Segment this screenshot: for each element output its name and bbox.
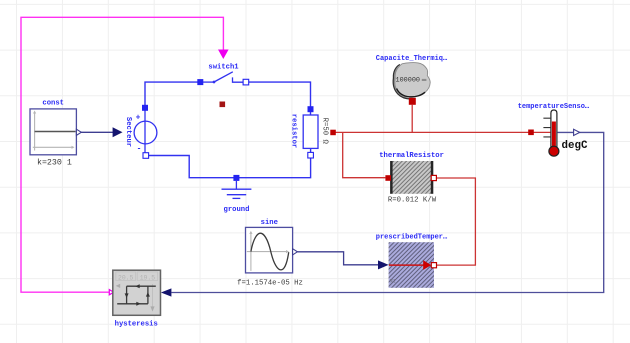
param boxes 20.5 / 19.5 xyxy=(116,272,136,281)
pin: resistor heatPort (filled red square) xyxy=(330,130,336,136)
component: Capacite_Thermiq heat capacitor xyxy=(376,55,448,105)
pin: switch1.p (filled blue square) xyxy=(197,79,203,85)
red arrow inside xyxy=(389,264,424,266)
switch lead and arm xyxy=(203,81,214,83)
svg-text:100000: 100000 xyxy=(396,76,420,84)
svg-text:-: - xyxy=(137,145,142,154)
component: hysteresis block xyxy=(113,270,161,328)
pin: Secteur.n (open square) xyxy=(143,153,149,159)
pin: resistor.n (open square) xyxy=(308,152,314,158)
arrowhead: into hysteresis (filled navy) xyxy=(161,288,172,296)
blob dark shade (left/bottom crescent) xyxy=(393,65,412,100)
blob bottom outline xyxy=(397,89,425,97)
component: prescribedTemper prescribed temperature xyxy=(376,234,448,288)
svg-text:19.5: 19.5 xyxy=(140,274,156,281)
svg-text:20.5: 20.5 xyxy=(118,274,134,281)
component: temperatureSensor thermometer xyxy=(518,103,590,156)
wire: boolean signal hysteresis.y -> switch1.control (magenta) xyxy=(21,17,223,292)
tube xyxy=(551,110,557,147)
const axes xyxy=(33,113,73,151)
right bar xyxy=(431,161,434,194)
pin: Secteur.p (filled blue square) xyxy=(142,105,148,111)
pin: port_a (filled red square) xyxy=(385,175,391,181)
pin: port_b (open red square) xyxy=(431,175,436,180)
const value line xyxy=(35,131,76,133)
arrowhead: boolean into switch1 (filled, down) xyxy=(218,50,229,60)
component: const block U-const xyxy=(30,99,81,167)
ticks xyxy=(543,118,550,137)
svg-text:%t: %t xyxy=(390,279,396,285)
wire: const.y -> Secteur.v (navy) xyxy=(81,131,114,133)
sine axes xyxy=(247,233,287,271)
pin: resistor.p (filled blue square) xyxy=(308,106,314,112)
component: resistor R=50 xyxy=(290,106,329,158)
svg-text:R=0.012 K/W: R=0.012 K/W xyxy=(388,197,437,205)
sine curve xyxy=(251,233,289,270)
node: ground junction (filled blue square) xyxy=(233,175,239,181)
svg-text:f=1.1574e-05 Hz: f=1.1574e-05 Hz xyxy=(237,280,303,288)
wire: sine.y -> prescribedTemperature.T (navy) xyxy=(297,252,379,265)
svg-text:Capacite_Thermiq…: Capacite_Thermiq… xyxy=(376,55,448,63)
svg-text:+: + xyxy=(136,114,141,123)
svg-text:const: const xyxy=(42,99,64,107)
component: thermalResistor xyxy=(379,152,444,205)
component: sine block xyxy=(237,219,303,287)
svg-text:resistor: resistor xyxy=(290,114,298,149)
light gray axis arrows xyxy=(116,284,121,288)
svg-text:ground: ground xyxy=(224,206,250,214)
component: ground xyxy=(222,181,252,199)
blob body xyxy=(395,63,430,97)
hysteresis loop xyxy=(117,286,156,304)
svg-text:prescribedTemper…: prescribedTemper… xyxy=(376,234,448,242)
svg-text:k=230 1: k=230 1 xyxy=(37,158,72,168)
connector: sensor output (open navy triangle) xyxy=(574,129,580,135)
component: Secteur signal voltage source xyxy=(124,105,157,159)
wire: thermalResistor.port_b -> prescribedTemperature.port xyxy=(436,178,475,265)
wire: capacitor drop xyxy=(411,105,413,133)
svg-text:Secteur: Secteur xyxy=(124,117,132,147)
wire: switch1.n -> resistor.p xyxy=(246,82,311,115)
svg-text:hysteresis: hysteresis xyxy=(115,320,158,328)
wire: resistor.n -> ground -> Secteur.n xyxy=(146,148,311,177)
svg-text:R=50 Ω: R=50 Ω xyxy=(321,118,329,145)
bulb xyxy=(549,146,559,156)
wire: bus -> thermalResistor.port_a xyxy=(343,132,386,177)
left bar xyxy=(390,161,393,194)
component: switch1 ideal switch xyxy=(197,64,248,108)
wire: Secteur.p -> switch1.p (blue electrical) xyxy=(145,82,200,108)
connector: sine output (open navy triangle) xyxy=(293,249,298,255)
svg-text:switch1: switch1 xyxy=(208,64,239,72)
wire: temperatureSensor.T -> hysteresis.u (navy long loop) xyxy=(171,132,603,292)
loop arrows xyxy=(135,284,140,288)
pin: prescribed port (open red square) xyxy=(431,263,436,268)
svg-text:sine: sine xyxy=(261,219,278,227)
red column xyxy=(552,122,556,149)
pin: switch1.n (open square) xyxy=(243,79,249,85)
svg-text:degC: degC xyxy=(562,140,588,152)
blob shade outline xyxy=(393,65,412,100)
connector: const output (open navy triangle) xyxy=(76,129,81,135)
svg-text:thermalResistor: thermalResistor xyxy=(379,152,444,160)
svg-text:temperatureSenso…: temperatureSenso… xyxy=(518,103,590,111)
node: sensor junction (filled red square) xyxy=(528,130,534,136)
connector: hysteresis output (open magenta triangle) xyxy=(109,290,113,295)
arrowhead: into prescribedTemperature (filled navy) xyxy=(378,260,389,269)
arrowhead: into Secteur input (filled navy) xyxy=(113,127,123,137)
pin: capacitor port (filled red square) xyxy=(409,98,416,105)
switch1 heat port (unconnected dark red square) xyxy=(220,102,226,108)
wire: thermal bus resistor.heatPort -> sensor (red) xyxy=(333,131,550,133)
